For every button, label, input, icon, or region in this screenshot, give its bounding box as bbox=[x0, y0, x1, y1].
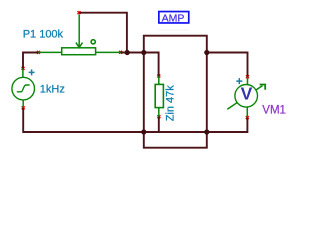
wire: Zin bottom to rail bbox=[158, 116, 160, 132]
wire: ground rail through AMP block bbox=[144, 131, 207, 133]
potentiometer P1 open terminal circle bbox=[91, 40, 95, 44]
terminal cross P1 right bbox=[119, 51, 122, 54]
svg-text:V: V bbox=[241, 84, 253, 104]
svg-text:VM1: VM1 bbox=[262, 104, 286, 116]
voltmeter VM1 circle bbox=[235, 85, 258, 108]
junction box right-bottom bbox=[204, 129, 209, 134]
terminal cross Zin top bbox=[157, 75, 160, 78]
terminal cross VM1 top bbox=[246, 75, 249, 78]
terminal cross VG1 bottom bbox=[22, 106, 25, 109]
svg-text:AMP: AMP bbox=[162, 12, 185, 24]
svg-text:Zin 47k: Zin 47k bbox=[165, 85, 177, 122]
wire: ground rail from source bottom bbox=[23, 108, 144, 133]
wire: AMP output to VM1 top bbox=[207, 53, 248, 78]
junction box left-top bbox=[141, 50, 146, 55]
junction box right-top bbox=[204, 50, 209, 55]
voltmeter VM1 stubs bbox=[246, 77, 248, 118]
terminal cross VM1 bottom bbox=[246, 116, 249, 119]
resistor Zin body bbox=[155, 84, 163, 107]
voltmeter VM1 needle arrow bbox=[227, 86, 262, 110]
junction box left-bottom bbox=[141, 129, 146, 134]
wire: P1 wiper to node A bbox=[79, 13, 127, 51]
plus sign VG1 bbox=[29, 69, 35, 75]
svg-text:P1 100k: P1 100k bbox=[23, 29, 64, 41]
voltage generator VG1 circle bbox=[12, 77, 35, 100]
terminal cross Zin bottom bbox=[157, 115, 160, 118]
terminal cross P1 left bbox=[37, 51, 40, 54]
voltage generator VG1 waveform symbol bbox=[17, 85, 30, 92]
potentiometer P1 leads bbox=[39, 51, 121, 53]
voltage generator VG1 stubs bbox=[22, 68, 24, 108]
potentiometer P1 wiper arrow bbox=[76, 15, 83, 48]
wire: source top to P1 left bbox=[23, 53, 39, 70]
plus sign VM1 bbox=[236, 78, 242, 84]
terminal cross P1 wiper bbox=[78, 11, 81, 14]
AMP label box bbox=[159, 12, 189, 23]
wire: VM1 bottom to ground rail bbox=[207, 117, 248, 132]
svg-text:1kHz: 1kHz bbox=[40, 84, 65, 96]
wire: node A to Zin top bbox=[120, 53, 159, 77]
resistor Zin stubs bbox=[158, 76, 160, 117]
junction node A bbox=[125, 50, 130, 55]
terminal cross VG1 top bbox=[22, 67, 25, 70]
faint artifact line below AMP label bbox=[158, 30, 190, 31]
AMP block box bbox=[144, 36, 207, 148]
potentiometer P1 body bbox=[62, 48, 96, 55]
